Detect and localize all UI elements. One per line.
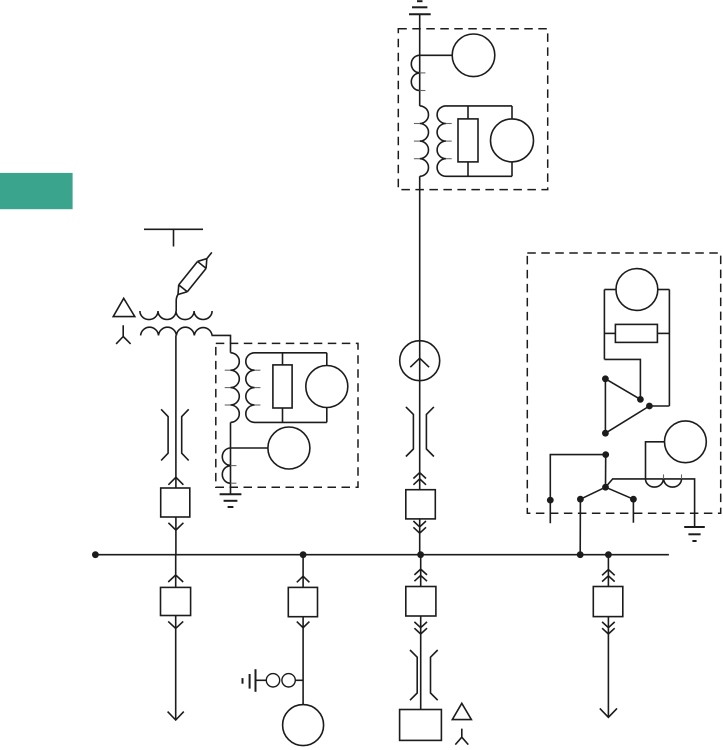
ground (top, above box 1)	[409, 1, 431, 14]
resistor R2 (box 2)	[273, 365, 292, 408]
VT primary ticks (box 2)	[225, 370, 231, 405]
wire: wye to CT conductor to ground	[606, 479, 695, 527]
VT primary winding (box 1)	[420, 106, 429, 176]
ground (below box 2)	[220, 494, 242, 507]
chevrons below square (upper middle)	[413, 521, 426, 527]
wye symbol (feeder 3)	[455, 729, 468, 745]
feeder 3 chevrons down	[414, 622, 427, 628]
wire: left branch of wye	[550, 455, 605, 524]
feeder 1 breaker square	[161, 587, 191, 615]
dashed box 2 (left metering unit)	[216, 343, 358, 487]
wire: M5 leads	[604, 289, 616, 291]
CT2 ticks	[231, 466, 237, 484]
VT secondary winding (box 1)	[437, 106, 512, 176]
motor M (feeder 2)	[283, 705, 324, 746]
breaker square (left upper feeder)	[161, 488, 190, 517]
fuse disconnect F1 (diagonal)	[174, 249, 216, 298]
wire: step to delta	[604, 359, 640, 399]
delta connection (box 3)	[605, 379, 669, 433]
node: bus junction dots	[92, 551, 612, 558]
wire: square to bus (left feeder)	[175, 517, 177, 555]
teal legend block	[0, 173, 73, 209]
meter M4 (box 2)	[268, 427, 310, 469]
feeder 2: wire to motor	[302, 617, 304, 705]
feeder 2 chevron up	[297, 576, 310, 582]
wire: ground to coil top (main incomer)	[419, 14, 421, 106]
wye symbol (transformer secondary)	[116, 325, 131, 344]
CT1 ticks	[420, 73, 426, 91]
wire: M2 stubs	[511, 106, 513, 119]
wire: R3 stubs	[604, 332, 615, 334]
feeder 2: wire bus to square	[302, 555, 304, 588]
current transformer CT1 arcs	[411, 55, 419, 90]
node: delta junctions	[602, 375, 653, 436]
CT3 ticks	[664, 474, 682, 479]
feeder 1 chevron down	[168, 621, 183, 628]
surge capacitor plates	[242, 678, 244, 684]
main bus	[95, 554, 669, 556]
chevron above square (left feeder)	[168, 477, 183, 485]
VT secondary ticks (box 2)	[255, 370, 261, 405]
chevron below square (left feeder)	[168, 523, 183, 530]
wire: wye stem	[605, 455, 607, 488]
resistor R3 (box 3)	[615, 324, 657, 342]
wire: R1 stubs	[467, 106, 469, 119]
wire: capacitor to counters	[256, 679, 267, 681]
feeder 2 breaker square	[288, 587, 317, 616]
VT primary ticks	[414, 124, 420, 159]
drawout disconnect (feeder 3)	[410, 650, 438, 700]
wire: loop verticals (box 3)	[603, 290, 605, 360]
feeder 4: wire bus to square	[607, 555, 609, 587]
wire: square to bus (upper middle)	[419, 519, 421, 555]
meter M3 (box 2)	[306, 366, 348, 408]
feeder 4 chevrons down	[602, 622, 615, 628]
feeder 3: wire bus to square	[420, 555, 422, 587]
transformer T1 secondary winding (scallops)	[141, 327, 213, 335]
meter M2 (box 1)	[491, 119, 534, 162]
chevrons above square (upper middle)	[413, 473, 426, 479]
feeder 4 chevrons up	[602, 570, 615, 576]
VT primary winding (box 2)	[231, 353, 240, 423]
feeder 4 breaker square	[593, 587, 623, 617]
wire: R2 stubs	[282, 353, 284, 365]
VT secondary winding (box 2)	[246, 353, 327, 423]
delta symbol (feeder 3)	[452, 703, 471, 719]
resistor R1 (box 1)	[458, 119, 478, 162]
feeder 4: wire down	[607, 617, 609, 718]
dashed box 1 (top metering unit)	[398, 29, 547, 190]
feeder 3 breaker square	[406, 587, 436, 617]
counter circle B	[282, 674, 295, 687]
wire: CT1 to meter M1	[420, 54, 453, 56]
bus tap T symbol	[144, 228, 203, 230]
feeder 3 chevrons up	[414, 569, 427, 575]
drawout disconnect (left feeder)	[161, 409, 189, 460]
meter M1	[452, 34, 495, 77]
wire: box2 winding to ground	[230, 422, 232, 494]
breaker square (upper middle)	[406, 490, 436, 519]
wire: M3 stubs	[326, 353, 328, 366]
wire: CT3 to meter M6	[646, 442, 665, 479]
ground (below box 3)	[684, 527, 705, 541]
counter circle A	[266, 674, 279, 687]
feeder 3: wire square to transformer	[420, 616, 422, 710]
current transformer CT2 arcs (box 2)	[222, 448, 230, 483]
transformer load box (feeder 3)	[400, 710, 442, 741]
feeder 1: wire bus to square	[175, 555, 177, 588]
feeder 1 chevron up	[168, 575, 183, 582]
meter M5 (box 3)	[616, 269, 658, 311]
generator / source circle with arrow	[400, 341, 440, 381]
wire: counters to feeder 2	[295, 679, 303, 681]
transformer T1 primary winding (scallops)	[140, 311, 212, 320]
feeder 1: wire down	[175, 616, 177, 721]
feeder 1 arrowhead	[168, 712, 184, 720]
node: wye junctions	[547, 451, 637, 503]
wire: CT2 to meter M4	[231, 447, 268, 449]
drawout disconnect (upper middle)	[406, 407, 434, 457]
delta symbol (transformer primary)	[113, 298, 135, 316]
wye connection legs	[580, 487, 633, 555]
dashed box 3 (right protection unit)	[527, 253, 720, 513]
wire: main line box1 to breaker square	[419, 176, 421, 489]
feeder 2 chevron down	[297, 622, 310, 628]
wire: left feeder down to square	[175, 335, 177, 488]
wire: secondary to box 2	[212, 335, 231, 352]
feeder 4 arrowhead	[600, 708, 617, 717]
VT secondary ticks	[446, 124, 452, 159]
wire: fuse to primary winding	[176, 295, 178, 312]
current transformer CT3 arcs (box 3)	[646, 479, 682, 487]
meter M6 (box 3)	[665, 421, 707, 463]
